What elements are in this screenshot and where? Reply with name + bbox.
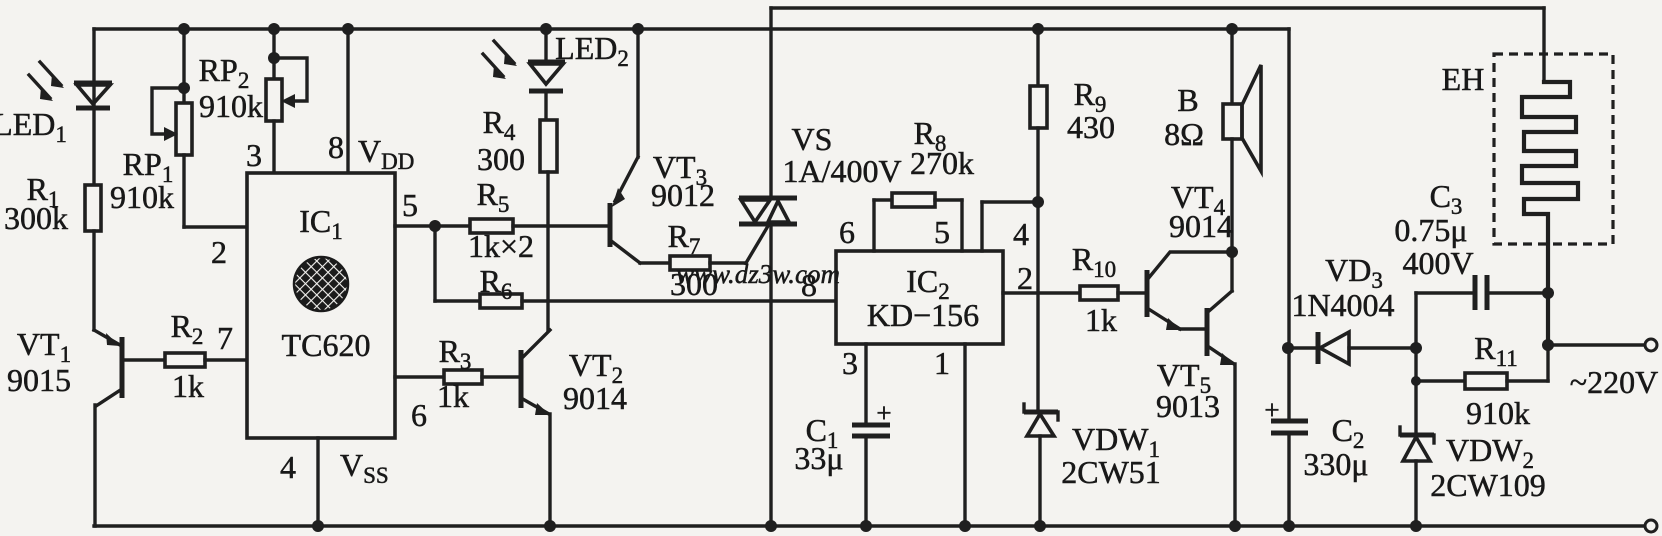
svg-text:1k: 1k xyxy=(172,368,204,404)
svg-text:5: 5 xyxy=(934,214,950,250)
svg-text:300: 300 xyxy=(477,141,525,177)
svg-text:1k×2: 1k×2 xyxy=(468,228,534,264)
svg-text:+: + xyxy=(876,398,891,428)
svg-text:1A/400V: 1A/400V xyxy=(782,153,901,189)
svg-text:9012: 9012 xyxy=(651,177,715,213)
svg-text:VS: VS xyxy=(792,121,833,157)
svg-text:910k: 910k xyxy=(1466,395,1530,431)
svg-text:1k: 1k xyxy=(1085,302,1117,338)
svg-text:300k: 300k xyxy=(4,200,68,236)
svg-text:8: 8 xyxy=(328,129,344,165)
svg-text:2CW51: 2CW51 xyxy=(1061,454,1161,490)
svg-text:1k: 1k xyxy=(437,378,469,414)
svg-text:1: 1 xyxy=(934,345,950,381)
svg-text:EH: EH xyxy=(1442,61,1485,97)
svg-text:910k: 910k xyxy=(199,88,263,124)
svg-text:6: 6 xyxy=(839,214,855,250)
svg-text:3: 3 xyxy=(246,137,262,173)
svg-text:33μ: 33μ xyxy=(794,440,843,476)
svg-text:5: 5 xyxy=(402,187,418,223)
svg-text:B: B xyxy=(1177,82,1198,118)
svg-text:4: 4 xyxy=(1013,216,1029,252)
svg-text:+: + xyxy=(1264,395,1279,425)
svg-text:0.75μ: 0.75μ xyxy=(1394,212,1467,248)
svg-text:www.dz3w.com: www.dz3w.com xyxy=(676,259,840,289)
svg-text:9013: 9013 xyxy=(1156,388,1220,424)
svg-text:4: 4 xyxy=(280,449,296,485)
svg-text:6: 6 xyxy=(411,397,427,433)
svg-text:9014: 9014 xyxy=(1169,208,1233,244)
svg-text:910k: 910k xyxy=(110,179,174,215)
svg-text:2: 2 xyxy=(1017,260,1033,296)
svg-text:330μ: 330μ xyxy=(1303,446,1368,482)
svg-text:7: 7 xyxy=(217,320,233,356)
svg-text:TC620: TC620 xyxy=(282,327,371,363)
svg-text:3: 3 xyxy=(842,345,858,381)
svg-text:400V: 400V xyxy=(1402,245,1473,281)
svg-text:430: 430 xyxy=(1067,109,1115,145)
svg-text:KD−156: KD−156 xyxy=(867,297,979,333)
svg-text:2CW109: 2CW109 xyxy=(1430,467,1546,503)
svg-text:8Ω: 8Ω xyxy=(1164,116,1204,152)
svg-text:270k: 270k xyxy=(910,145,974,181)
svg-text:1N4004: 1N4004 xyxy=(1291,287,1394,323)
svg-text:2: 2 xyxy=(211,234,227,270)
svg-text:~220V: ~220V xyxy=(1570,364,1658,400)
svg-text:9014: 9014 xyxy=(563,380,627,416)
svg-text:9015: 9015 xyxy=(7,362,71,398)
